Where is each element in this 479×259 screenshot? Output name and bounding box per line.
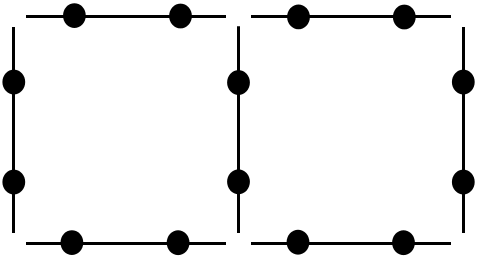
wire: right edge of right plaquette	[462, 27, 465, 233]
node: dot 1 on bottom-right edge	[287, 230, 310, 255]
wire: bottom edge of right plaquette	[251, 242, 451, 245]
node: dot 1 on top-right edge	[287, 5, 310, 30]
node: lower dot on right edge	[452, 170, 475, 195]
node: dot 1 on top-left edge	[63, 3, 86, 28]
node: upper dot on left edge	[2, 70, 25, 95]
node: dot 2 on top-left edge	[169, 4, 192, 29]
node: dot 1 on bottom-left edge	[61, 230, 84, 255]
node: lower dot on middle edge	[227, 169, 250, 194]
wire: shared middle edge of the two plaquettes	[237, 26, 240, 233]
node: dot 2 on bottom-right edge	[392, 230, 415, 255]
wire: top edge of right plaquette	[251, 15, 451, 18]
wire: bottom edge of left plaquette	[26, 242, 226, 245]
wire: left edge of left plaquette	[12, 27, 15, 233]
node: dot 2 on top-right edge	[393, 5, 416, 30]
node: lower dot on left edge	[2, 170, 25, 195]
wire: top edge of left plaquette	[26, 15, 226, 18]
node: upper dot on right edge	[452, 70, 475, 95]
node: upper dot on middle edge	[227, 70, 250, 95]
node: dot 2 on bottom-left edge	[167, 230, 190, 255]
